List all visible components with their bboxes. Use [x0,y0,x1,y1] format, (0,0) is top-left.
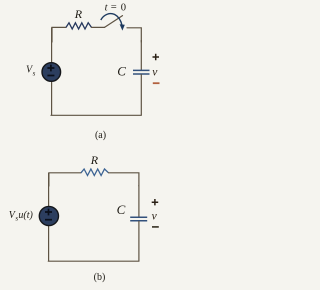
minus inside source (a) [47,75,54,77]
minus polarity mark (a) [153,82,160,84]
svg-text:u(t): u(t) [18,210,33,221]
wire: right side lower (a) [140,74,142,115]
svg-text:(b): (b) [94,272,106,283]
wire: left side (a) [51,27,53,115]
capacitor C (b) plates [130,217,147,221]
switch closing arc arrow [101,14,122,26]
wire: right side upper (b) [138,185,140,217]
svg-text:=: = [111,2,117,13]
plus inside source (a) [47,65,54,72]
wire: circuit (a) top-left segment [52,27,66,42]
svg-text:s: s [33,69,36,77]
switch blade (a) [105,16,123,28]
voltage source Vs (a) [42,63,61,82]
wire: left side (b) [48,173,50,261]
switch arrowhead [120,24,125,30]
svg-text:0: 0 [121,2,126,13]
svg-text:v: v [152,67,158,79]
capacitor C (a) plates [133,70,150,74]
wire: resistor to switch (a) [92,26,105,28]
svg-text:R: R [90,153,99,167]
minus polarity mark (b) [152,226,159,228]
wire: bottom (b) [48,260,139,262]
svg-text:R: R [74,7,83,21]
wire: right side lower (b) [138,221,140,261]
plus polarity mark (b) [152,199,159,205]
wire: circuit (b) top-left segment [49,173,81,186]
resistor R (b) zigzag [81,169,109,176]
plus polarity mark (a) [153,54,160,60]
svg-text:v: v [152,211,158,223]
svg-text:(a): (a) [95,130,106,141]
voltage source Vs u(t) (b) [39,206,58,225]
wire: bottom (a) [51,114,141,116]
svg-text:C: C [117,202,126,217]
plus inside source (b) [45,209,52,216]
wire: resistor to top-right corner (b) [109,173,139,186]
resistor R (a) zigzag [66,23,92,29]
wire: right side upper (a) [140,40,142,70]
wire: switch contact to top-right corner (a) [127,28,141,42]
minus inside source (b) [45,219,52,221]
svg-text:C: C [117,63,126,78]
